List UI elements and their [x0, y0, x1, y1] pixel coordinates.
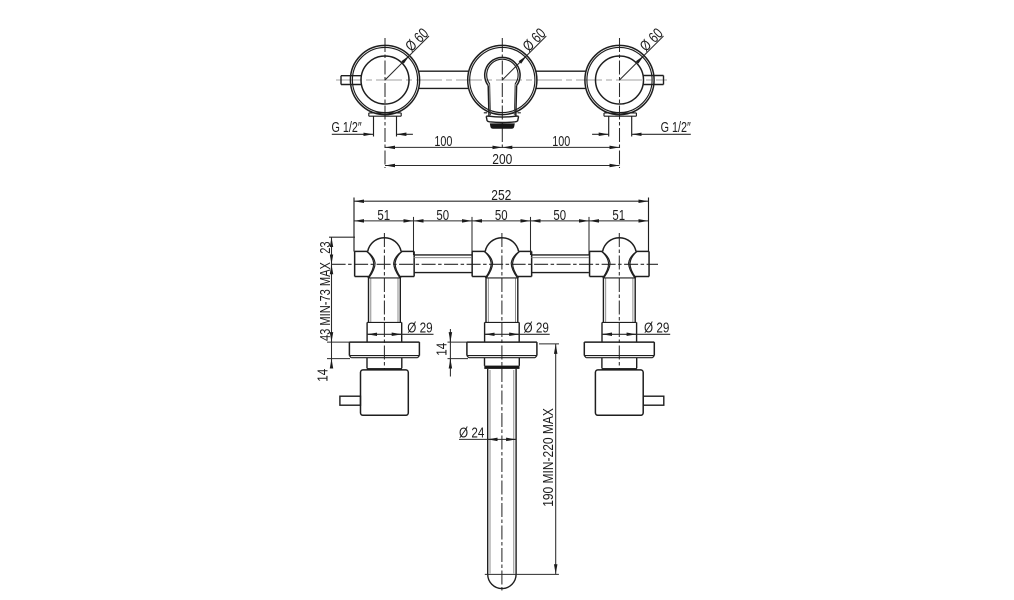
svg-text:Ø 29: Ø 29 — [407, 319, 432, 336]
svg-text:50: 50 — [436, 206, 449, 223]
svg-text:50: 50 — [553, 206, 566, 223]
svg-text:23: 23 — [316, 241, 333, 253]
svg-text:51: 51 — [377, 206, 390, 223]
svg-text:100: 100 — [434, 132, 452, 149]
svg-text:Ø 29: Ø 29 — [524, 319, 549, 336]
svg-text:100: 100 — [552, 132, 570, 149]
svg-text:14: 14 — [314, 368, 331, 381]
svg-text:Ø 24: Ø 24 — [459, 424, 485, 441]
svg-text:G 1/2″: G 1/2″ — [661, 118, 692, 135]
svg-text:14: 14 — [433, 342, 450, 355]
svg-text:43 MIN-73 MAX: 43 MIN-73 MAX — [316, 262, 333, 341]
svg-text:50: 50 — [495, 206, 508, 223]
svg-text:Ø 29: Ø 29 — [644, 319, 669, 336]
svg-text:G 1/2″: G 1/2″ — [332, 118, 362, 135]
svg-text:200: 200 — [492, 151, 512, 168]
svg-text:51: 51 — [612, 206, 625, 223]
svg-text:190 MIN-220 MAX: 190 MIN-220 MAX — [540, 408, 557, 507]
